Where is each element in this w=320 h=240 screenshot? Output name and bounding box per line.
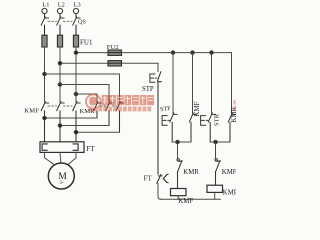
svg-text:KMF: KMF — [178, 198, 193, 205]
thermal contact FT (NC) — [157, 174, 168, 183]
node L3 crossover — [74, 92, 78, 96]
svg-text:STP: STP — [142, 86, 154, 93]
wire drop STR — [211, 53, 213, 114]
wire L1 crossover — [45, 74, 120, 102]
svg-text:KMR: KMR — [223, 189, 236, 196]
fuse FU1 b — [57, 25, 62, 47]
switch QS pole 3 — [73, 17, 80, 25]
wire branch R down — [215, 142, 217, 159]
node branch R — [214, 140, 218, 144]
coil KMR — [207, 185, 223, 192]
node W — [74, 130, 78, 134]
wire L2 crossover — [60, 85, 109, 102]
interlock contact KMF (NC) — [215, 159, 220, 186]
node U — [43, 116, 47, 120]
svg-text:KMF: KMF — [24, 108, 39, 115]
motor M circle — [48, 163, 74, 189]
svg-text:L2: L2 — [58, 2, 65, 9]
svg-text:STR: STR — [214, 113, 221, 126]
wire L3 crossover — [76, 94, 97, 102]
wire FU2b to STP — [122, 63, 159, 71]
STR actuator E — [201, 116, 209, 126]
rail drop node STF — [171, 51, 175, 55]
node L2 crossover — [58, 83, 62, 87]
FT heater element left — [42, 144, 47, 150]
svg-text:L1: L1 — [42, 2, 49, 9]
wire L2 vertical — [59, 47, 61, 102]
STP actuator E — [150, 74, 158, 82]
contactor KMF pole 1 — [41, 102, 49, 142]
QS linkage dashed — [48, 20, 72, 22]
wire merge branch R — [210, 141, 230, 143]
wire to motor W — [68, 152, 76, 164]
pushbutton STR (NO start rev) — [208, 113, 215, 142]
contact KMF auxiliary (NO) — [189, 113, 196, 142]
terminal L3 — [73, 8, 78, 17]
node V — [58, 124, 62, 128]
contactor KMR pole 1 — [94, 102, 102, 118]
interlock contact KMR (NC) — [177, 159, 182, 189]
contactor KMF pole 3 — [73, 102, 81, 142]
svg-text:QS: QS — [78, 19, 86, 26]
svg-text:FU1: FU1 — [80, 38, 93, 46]
wire drop KMF aux — [192, 53, 194, 114]
node L3 tap — [74, 51, 78, 55]
fuse FU1 a — [42, 25, 47, 47]
wire L1 vertical — [44, 47, 46, 102]
svg-text:FT: FT — [144, 175, 153, 182]
terminal L1 — [42, 8, 47, 17]
wire V return — [60, 125, 109, 127]
svg-text:KMF: KMF — [222, 169, 236, 176]
node branch F — [176, 140, 180, 144]
fuse FU2 a — [108, 50, 122, 55]
wire to motor U — [45, 152, 54, 164]
node L2 tap — [58, 61, 62, 65]
STF actuator E — [162, 116, 171, 126]
svg-text:KMR: KMR — [183, 169, 199, 176]
wire L3 vertical — [75, 47, 77, 102]
thermal relay FT heater box — [40, 142, 84, 153]
fuse FU2 b — [108, 61, 122, 66]
wire KMF coil to bottom — [177, 196, 179, 200]
wire tap L2 to FU2b — [60, 62, 108, 64]
pushbutton STF (NO start fwd) — [170, 113, 177, 142]
svg-text:KMF: KMF — [194, 101, 201, 116]
pushbutton STP (NC stop) — [157, 72, 161, 174]
wire W return — [76, 131, 120, 133]
node L1 crossover — [43, 72, 47, 76]
svg-text:STF: STF — [160, 105, 172, 113]
wire control top rail — [122, 52, 232, 54]
wire KMR coil to bottom — [214, 192, 216, 199]
wire bottom return — [160, 198, 221, 200]
svg-text:FU2: FU2 — [107, 44, 119, 51]
svg-text:L3: L3 — [74, 2, 81, 9]
wire tap L3 to FU2a — [76, 52, 108, 54]
wire FT down to bottom — [158, 184, 161, 200]
KMF linkage dashed — [48, 105, 72, 107]
contactor KMR pole 3 — [116, 102, 124, 133]
wire to motor V — [59, 152, 62, 163]
contact KMR auxiliary (NO) — [228, 113, 235, 142]
switch QS pole 2 — [57, 17, 64, 25]
fuse FU1 c — [73, 25, 78, 47]
contactor KMR pole 2 — [106, 102, 114, 126]
svg-text:FT: FT — [86, 145, 95, 153]
wire drop STF — [172, 53, 174, 114]
wire drop KMR aux — [231, 53, 233, 114]
coil KMF — [171, 189, 187, 196]
FT heater element right — [73, 144, 78, 150]
contactor KMF pole 2 — [57, 102, 64, 142]
rail drop node KMF aux — [191, 51, 195, 55]
svg-text:3~: 3~ — [59, 181, 64, 186]
wire U return — [45, 117, 98, 119]
watermark — [86, 94, 236, 111]
KMR linkage dashed — [100, 105, 117, 107]
terminal L2 — [57, 8, 62, 17]
rail drop node STR — [210, 51, 214, 55]
wire branch F down — [177, 142, 179, 159]
switch QS pole 1 — [41, 17, 48, 25]
wire merge branch F — [172, 141, 191, 143]
